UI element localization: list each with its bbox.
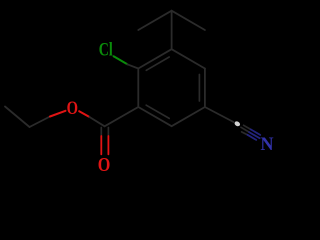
wire C=O double bond dark halves: [100, 128, 102, 137]
svg-text:N: N: [260, 134, 273, 155]
wire ester C to ring C1 bond: [105, 107, 139, 126]
triple bond C#N dark halves: [244, 125, 251, 129]
isopropyl stem bond from ring C3: [171, 11, 173, 50]
benzene ring outer bonds: [137, 69, 139, 108]
wire ring C5 to nitrile C bond: [205, 107, 234, 122]
benzene ring inner double-bond lines: [146, 57, 169, 70]
svg-text:Cl: Cl: [99, 39, 113, 60]
wire O-C carbonyl bond red half: [79, 111, 89, 117]
wire Cl-C2 bond dark half: [127, 64, 138, 68]
svg-text:O: O: [98, 154, 111, 176]
nitrile carbon dot marker: [234, 120, 241, 127]
wire C=O double bond red halves: [100, 136, 102, 154]
wire Cl-C2 bond green half: [114, 56, 128, 64]
wire CH2-O bond red half: [50, 111, 66, 117]
svg-text:O: O: [67, 98, 78, 119]
wire CH2-O bond dark half: [30, 117, 51, 128]
triple bond C#N blue halves: [251, 129, 261, 135]
isopropyl CH3 left bond: [138, 11, 171, 30]
wire ethyl CH3-CH2 bond: [5, 107, 30, 128]
isopropyl CH3 right bond: [172, 11, 205, 30]
wire O-C carbonyl bond dark half: [90, 117, 105, 126]
